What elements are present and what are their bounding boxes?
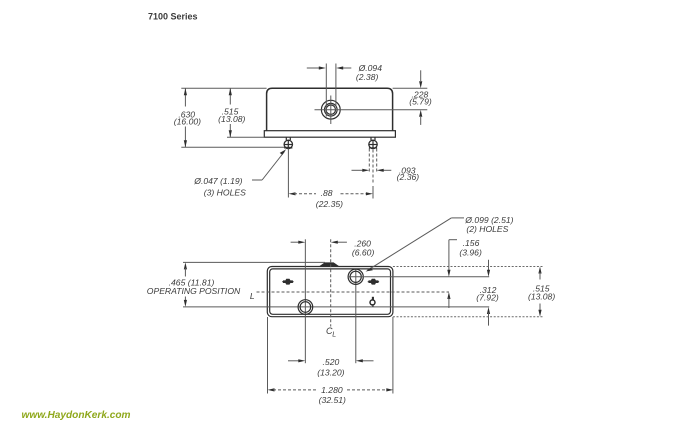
- dim Ø.094 right arrow: [342, 67, 351, 69]
- lower hole inner circle: [300, 302, 311, 313]
- pin symbol: [370, 300, 375, 305]
- right mounting foot neck: [371, 137, 375, 140]
- dim .520 right arrow: [361, 360, 373, 362]
- base plate bottom extension left: [227, 136, 264, 138]
- left screw symbol: [282, 279, 293, 285]
- right foot left ext line: [368, 149, 370, 173]
- right foot centerline dashed: [372, 150, 374, 185]
- right screw symbol: [368, 279, 379, 285]
- body top extension left: [181, 87, 266, 89]
- leader Ø.099 arrowhead: [366, 268, 373, 272]
- lower hole centerline horizontal (operating row): [183, 306, 489, 308]
- dim .260 right arrow: [336, 241, 347, 243]
- svg-text:Ø.047 (1.19): Ø.047 (1.19): [193, 176, 242, 186]
- right foot right ext line: [376, 149, 378, 173]
- svg-text:(13.08): (13.08): [218, 114, 245, 124]
- vertical centerline lower hole: [304, 239, 306, 363]
- dim .520 left arrow: [288, 360, 300, 362]
- dim .156 top tick: [449, 239, 457, 241]
- housing bottom edge extension right: [393, 316, 544, 318]
- housing left edge extension down: [267, 317, 269, 394]
- upper hole outer circle: [348, 269, 363, 284]
- L line: [257, 291, 450, 293]
- shaft hole middle circle: [325, 103, 338, 116]
- base plate: [264, 131, 395, 138]
- dim .630 upper arrow: [184, 88, 186, 106]
- dim Ø.094 left arrow: [307, 67, 320, 69]
- svg-text:.520: .520: [323, 357, 340, 367]
- dim .465 lower arrow: [184, 297, 186, 302]
- right mounting foot head: [369, 140, 377, 148]
- dim ext line hole left: [325, 64, 327, 117]
- dim .156 lower arrow: [447, 292, 450, 299]
- shaft hole outer circle: [321, 100, 340, 119]
- dim .228 lower arrow: [420, 117, 422, 125]
- body top extension right: [393, 87, 428, 89]
- housing top edge extension right: [393, 266, 544, 268]
- dim .515 upper arrow: [538, 267, 541, 274]
- svg-text:(6.60): (6.60): [352, 247, 375, 257]
- left mounting foot neck: [286, 137, 290, 140]
- dim .88 left arrow: [289, 192, 296, 195]
- dim 1.280 right arrow: [347, 389, 388, 391]
- dim .093 left arrow: [352, 169, 364, 171]
- svg-text:7100 Series: 7100 Series: [148, 12, 198, 22]
- lower hole outer circle: [298, 300, 313, 315]
- leader Ø.047 diagonal: [262, 152, 284, 181]
- leader Ø.047 arrowhead: [280, 149, 287, 155]
- svg-text:(3) HOLES: (3) HOLES: [204, 187, 246, 197]
- leader Ø.099 diagonal: [368, 218, 452, 270]
- svg-text:(3.96): (3.96): [459, 247, 482, 257]
- left foot centerline below: [287, 149, 289, 198]
- svg-text:(16.00): (16.00): [174, 117, 201, 127]
- svg-text:L: L: [332, 331, 336, 338]
- right foot centerline: [372, 186, 374, 199]
- dim .630 bottom reference line: [181, 146, 290, 148]
- leader Ø.047 horizontal: [252, 179, 262, 181]
- shaft hole vertical centerline: [330, 96, 332, 125]
- dim .515 lower arrow: [229, 124, 231, 137]
- svg-text:(22.35): (22.35): [316, 199, 343, 209]
- left foot slot cross: [284, 144, 293, 146]
- dim ext line hole right: [335, 64, 337, 107]
- dim 1.280 left arrow: [268, 388, 275, 391]
- svg-text:(2) HOLES: (2) HOLES: [466, 224, 508, 234]
- dim .312 upper arrow: [488, 260, 490, 270]
- svg-text:(13.08): (13.08): [528, 292, 555, 302]
- dim .156 upper arrow shaft: [448, 240, 450, 270]
- svg-text:(13.20): (13.20): [317, 367, 344, 377]
- svg-text:(2.38): (2.38): [356, 72, 379, 82]
- vertical centerline CL: [330, 239, 332, 326]
- dim .88 right arrow: [341, 193, 368, 195]
- dim .312 lower arrow: [487, 307, 490, 314]
- shaft hole inner circle: [326, 105, 335, 114]
- svg-text:OPERATING POSITION: OPERATING POSITION: [147, 286, 241, 296]
- leader Ø.099 horizontal: [451, 217, 464, 219]
- shaft hole horizontal centerline: [315, 109, 428, 111]
- upper hole horizontal crosshair: [347, 276, 364, 278]
- housing outer outline: [267, 267, 393, 317]
- plunger bump: [319, 262, 340, 266]
- dim .093 right arrow: [383, 169, 391, 171]
- right foot slot cross: [369, 144, 378, 146]
- upper hole inner circle: [350, 271, 361, 282]
- svg-text:(32.51): (32.51): [319, 395, 346, 405]
- svg-text:1.280: 1.280: [321, 385, 343, 395]
- svg-text:(2.36): (2.36): [397, 172, 420, 182]
- dim .228 upper arrow: [420, 70, 422, 81]
- left mounting foot head: [284, 140, 292, 148]
- svg-text:L: L: [250, 291, 255, 301]
- bump top reference line: [183, 261, 325, 263]
- motor body outline: [267, 88, 393, 130]
- svg-text:.88: .88: [321, 188, 333, 198]
- vertical centerline upper hole: [355, 269, 357, 363]
- dim .465 upper arrow: [184, 262, 187, 269]
- upper hole centerline to right: [365, 276, 490, 278]
- svg-text:(5.79): (5.79): [409, 97, 432, 107]
- svg-text:www.HaydonKerk.com: www.HaydonKerk.com: [22, 410, 131, 421]
- dim .260 left arrow: [291, 241, 300, 243]
- dim .515 lower arrow: [539, 304, 541, 312]
- housing inner outline: [270, 269, 391, 314]
- dim .630 lower arrow: [184, 127, 186, 148]
- dim .515 upper arrow: [229, 88, 231, 104]
- housing right edge extension down: [392, 317, 394, 394]
- svg-text:(7.92): (7.92): [476, 293, 499, 303]
